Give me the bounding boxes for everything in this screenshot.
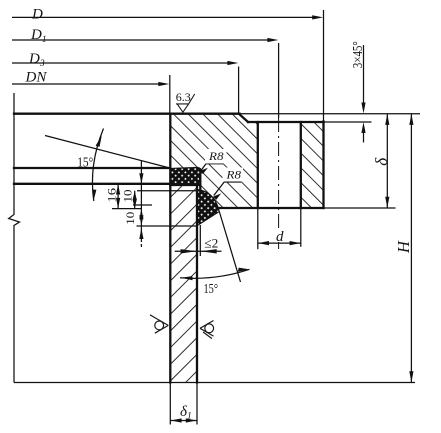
- svg-text:R8: R8: [225, 167, 241, 181]
- pipe wall extensions below bottom: [169, 383, 171, 425]
- 15 upper arc top arrow: [96, 136, 102, 147]
- bottom face extension left (L3): [112, 208, 141, 210]
- svg-text:10: 10: [121, 190, 135, 203]
- 15 lower arc left arrow: [181, 276, 193, 280]
- D arrow: [312, 15, 323, 19]
- 10a top arrow: [133, 191, 137, 200]
- DN dim line: [12, 83, 160, 85]
- R8 no.1 leader: [200, 164, 224, 173]
- 15deg upper arc: [92, 129, 103, 202]
- DN arrow: [158, 82, 169, 86]
- pipe right wall extension below bottom: [196, 383, 198, 425]
- bottom axis line: [14, 382, 415, 384]
- bolt hole right edge extension below: [300, 208, 302, 247]
- bolt hole edges extensions below: [257, 208, 259, 249]
- d left arrow: [258, 241, 269, 245]
- svg-text:DN: DN: [25, 69, 48, 85]
- gap dim right-pointing arrow at pipe wall: [181, 249, 197, 253]
- weld2 top extension (L2): [137, 190, 200, 192]
- H dim line: [410, 114, 412, 383]
- H top arrow: [409, 114, 413, 125]
- white halos behind R8 labels: [205, 149, 227, 164]
- bottom face extension right: [324, 207, 396, 209]
- D extension line: [323, 10, 325, 122]
- DN extension line: [169, 75, 171, 113]
- svg-text:16: 16: [105, 188, 119, 203]
- small line near L3: [133, 204, 152, 206]
- d dim line: [258, 242, 301, 244]
- D dim line: [12, 16, 314, 18]
- 10b down arrow at L4: [139, 215, 143, 226]
- bolt hole left edge: [257, 122, 259, 208]
- flange section (hatched): [170, 114, 324, 208]
- svg-text:d: d: [276, 229, 284, 245]
- delta1 dim line: [170, 420, 197, 422]
- svg-text:6.3: 6.3: [176, 90, 191, 104]
- flange top face: [14, 113, 240, 115]
- pipe right wall: [196, 185, 198, 383]
- arrowheads: [92, 15, 413, 422]
- D3 extension line: [238, 67, 240, 114]
- plate top: [14, 167, 170, 169]
- flange bore below weld: [199, 176, 201, 191]
- main outlines thick: [14, 114, 324, 383]
- chamfer 3x45: [239, 114, 248, 122]
- D3 dim line: [12, 62, 229, 64]
- bolt hole centerline dash-dot: [278, 118, 280, 249]
- svg-text:≤2: ≤2: [204, 236, 218, 251]
- delta1 left arrow: [171, 418, 182, 422]
- 3x45 leader lower: [363, 130, 365, 143]
- svg-text:D: D: [31, 6, 43, 22]
- 15 lower arc right arrow: [238, 268, 250, 272]
- pipe wall section (hatched): [170, 185, 197, 383]
- 10b dim line dashed tail: [140, 239, 142, 248]
- 15deg upper bevel line: [45, 136, 170, 169]
- delta dim line: [386, 114, 388, 208]
- d right arrow: [290, 241, 301, 245]
- gap dim left-pointing arrow at bore: [201, 249, 217, 253]
- R8 no.2 leader: [214, 182, 241, 196]
- 3x45 up arrow: [361, 122, 365, 133]
- svg-text:δ: δ: [372, 157, 391, 166]
- D1 extension solid part: [278, 43, 280, 118]
- break line left with zigzag: [9, 93, 20, 383]
- flange bottom face: [217, 207, 324, 209]
- svg-text:H: H: [394, 240, 413, 254]
- svg-text:10: 10: [123, 212, 137, 225]
- flange OD edge: [322, 122, 324, 209]
- recessed face extension right: [324, 121, 372, 123]
- plate bottom: [14, 183, 170, 185]
- 16 top arrow: [116, 184, 120, 195]
- white halo behind d label: [273, 229, 288, 243]
- recessed top face: [248, 121, 324, 123]
- svg-text:R8: R8: [208, 149, 224, 163]
- weld2 bottom extension (L4): [137, 225, 198, 227]
- R8 no.1 arrowhead: [200, 168, 208, 174]
- H bottom arrow: [409, 371, 413, 382]
- weld bead inner (dark): [197, 190, 219, 226]
- D1 arrow: [267, 38, 278, 42]
- bore extension line for gap dim: [199, 225, 201, 256]
- 3x45 down arrow: [361, 103, 365, 114]
- 10b up arrow at L3: [139, 209, 143, 220]
- delta top arrow: [385, 114, 389, 125]
- 10a bottom arrow: [133, 199, 137, 208]
- 15deg lower arc: [180, 269, 250, 278]
- bolt hole right edge: [300, 122, 302, 208]
- D3 arrow: [227, 61, 238, 65]
- 3x45 leader upper: [363, 45, 365, 104]
- 16 dim line: [117, 184, 119, 209]
- surface symbol left of pipe: [150, 315, 168, 333]
- delta bottom arrow: [385, 197, 389, 208]
- D1 dim line: [12, 39, 269, 41]
- svg-text:15°: 15°: [77, 155, 93, 170]
- top face extension right: [239, 113, 420, 115]
- up arrow below L4: [139, 228, 143, 239]
- weld bead outer (dark): [171, 167, 202, 183]
- 15 upper arc bottom arrow: [92, 190, 96, 201]
- surface finish symbol top: [176, 94, 195, 112]
- bore / pipe left wall: [169, 114, 171, 383]
- gap dim line: [175, 250, 222, 252]
- R8 no.2 arrowhead: [213, 193, 221, 199]
- 10b down arrow at plate bottom: [139, 173, 143, 184]
- surface symbol right of pipe: [200, 321, 214, 339]
- 10a dim line: [134, 191, 136, 209]
- 10b dim line: [140, 161, 142, 240]
- pipe top end: [170, 184, 200, 186]
- 15deg lower bevel line: [219, 212, 240, 283]
- svg-text:15°: 15°: [204, 282, 219, 297]
- svg-text:3×45°: 3×45°: [351, 41, 366, 68]
- delta1 right arrow: [186, 418, 197, 422]
- 16 bottom arrow: [116, 198, 120, 209]
